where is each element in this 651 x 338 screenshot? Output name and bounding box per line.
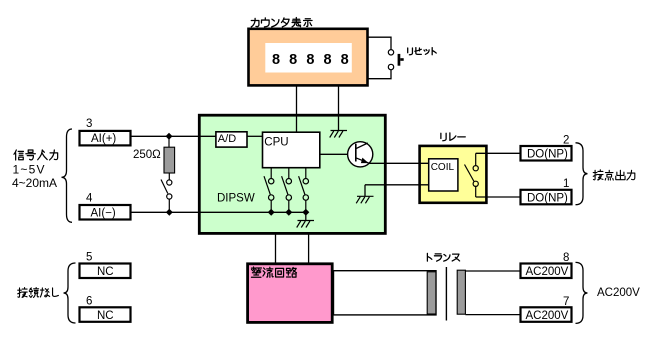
junction dot sw3 — [302, 209, 309, 216]
label: reset (リセット) — [408, 48, 437, 55]
svg-text:88888: 88888 — [272, 52, 358, 68]
wire: AI(+) to A/D — [131, 135, 216, 137]
svg-text:NC: NC — [97, 266, 114, 278]
wire: contact to DO1 — [476, 196, 520, 198]
input range switch — [161, 173, 172, 212]
seven-segment window — [265, 43, 352, 73]
svg-text:COIL: COIL — [431, 162, 455, 173]
A/D converter box — [216, 132, 247, 147]
svg-text:2: 2 — [563, 135, 569, 147]
ground (below transistor) — [356, 196, 373, 203]
junction dot top — [166, 133, 173, 140]
svg-text:NC: NC — [97, 310, 114, 322]
terminal NC bottom — [80, 307, 131, 322]
svg-text:3: 3 — [86, 118, 92, 130]
transformer core — [445, 267, 447, 321]
terminal DO(NP) bottom — [521, 190, 572, 205]
svg-text:A/D: A/D — [218, 133, 236, 145]
svg-text:8: 8 — [563, 252, 569, 264]
transistor Q1 — [321, 142, 373, 167]
ground (below DIPSW) — [297, 221, 314, 228]
svg-text:DIPSW: DIPSW — [217, 193, 255, 205]
reset push button SW1 — [398, 54, 404, 66]
wire: counter to reset bottom — [367, 70, 391, 79]
terminal AI(-) — [80, 205, 131, 220]
wire: contact to DO2 — [476, 152, 520, 154]
terminal AC200V bottom — [521, 307, 572, 322]
svg-text:AC200V: AC200V — [597, 287, 640, 299]
relay contact switch — [465, 153, 479, 197]
label: no connection (接続なし) — [18, 288, 59, 298]
DIP switch 3 — [299, 168, 309, 212]
svg-text:DO(NP): DO(NP) — [527, 192, 568, 204]
svg-text:5: 5 — [86, 252, 92, 264]
label: transformer (トランス) — [427, 253, 459, 261]
reset terminal top — [388, 50, 393, 55]
wire: counter to CPU — [296, 86, 298, 132]
counter display box U-DISP — [249, 29, 368, 86]
terminal DO(NP) top — [521, 146, 572, 161]
ground (top, under counter wire) — [330, 131, 347, 138]
wire: secondary to AC200V top — [465, 270, 520, 272]
input brace — [62, 129, 73, 222]
svg-text:250Ω: 250Ω — [133, 149, 161, 161]
wire: counter to reset top — [367, 37, 391, 49]
terminal NC top — [80, 264, 131, 279]
output brace — [576, 143, 588, 205]
junction dot bottom — [166, 209, 173, 216]
label: signal input (信号入力) — [14, 150, 58, 160]
DIP switch 2 — [282, 168, 292, 212]
wire: DIPSW ground stub — [305, 212, 307, 220]
label: contact output (接点出力) — [593, 170, 635, 180]
terminal AI(+) — [80, 131, 131, 146]
wire: AI(-) bus — [131, 211, 306, 213]
svg-text:1~5V: 1~5V — [13, 163, 46, 177]
CPU box — [263, 132, 320, 168]
coil box — [429, 159, 458, 191]
label: rectifier circuit (整流回路) — [251, 267, 296, 277]
NC brace — [64, 263, 76, 323]
AC brace — [576, 262, 588, 323]
wire: transistor emitter to relay coil — [369, 162, 428, 164]
wire: secondary to AC200V bottom — [465, 314, 520, 316]
transformer secondary winding bar — [457, 270, 465, 314]
svg-text:1: 1 — [563, 178, 569, 190]
wire: counter to ground — [338, 86, 340, 130]
wire: green box to rectifier right — [308, 233, 310, 263]
svg-text:AC200V: AC200V — [526, 310, 569, 322]
DIP switch 1 — [264, 168, 274, 212]
transformer primary winding bar — [427, 272, 436, 314]
rectifier box (pink) 整流回路 — [248, 264, 333, 323]
label: relay (リレー) — [441, 133, 465, 141]
main controller box (green) — [199, 115, 385, 233]
svg-text:DO(NP): DO(NP) — [527, 149, 568, 161]
svg-text:6: 6 — [86, 296, 92, 308]
svg-text:AC200V: AC200V — [526, 266, 569, 278]
relay box (yellow) — [420, 146, 487, 203]
junction dot sw2 — [285, 209, 292, 216]
svg-text:AI(−): AI(−) — [91, 208, 116, 220]
wire: green box to rectifier left — [275, 233, 277, 263]
label: counter display (カウンタ表示) — [251, 18, 312, 27]
svg-text:AI(+): AI(+) — [91, 133, 116, 145]
junction dot sw1 — [268, 209, 275, 216]
transformer primary loop — [334, 271, 437, 315]
wire: coil return to ground — [365, 185, 428, 196]
resistor R1 250ohm — [164, 136, 175, 173]
svg-text:CPU: CPU — [264, 137, 288, 149]
terminal AC200V top — [521, 264, 572, 279]
wire: A/D to CPU — [247, 135, 263, 137]
reset terminal bottom — [388, 64, 393, 69]
svg-text:4: 4 — [86, 193, 93, 205]
svg-text:4~20mA: 4~20mA — [12, 176, 57, 190]
